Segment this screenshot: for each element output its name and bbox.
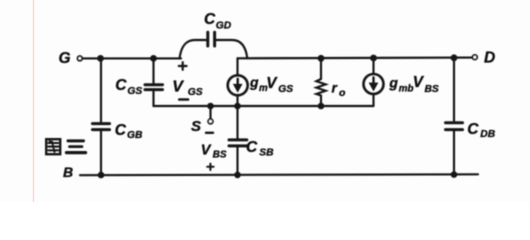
wire top rail right (D node) — [238, 57, 473, 60]
label S — [191, 118, 201, 135]
svg-text:mb: mb — [399, 84, 414, 95]
capacitor CGB — [93, 124, 110, 130]
wire B rail — [80, 173, 478, 176]
junction node B-CDB — [451, 171, 458, 178]
terminal S — [208, 119, 213, 124]
svg-text:o: o — [339, 87, 346, 99]
label D — [484, 50, 495, 67]
current source U2 gmbVBS — [364, 74, 384, 94]
scan artifact pink line — [33, 0, 35, 202]
wire S terminal stub — [209, 106, 211, 119]
svg-text:C: C — [246, 139, 258, 156]
svg-text:r: r — [332, 80, 339, 96]
wire rO branch bottom — [320, 96, 322, 107]
label CSB — [246, 139, 274, 159]
plus sign VGS — [179, 62, 187, 70]
junction node S-CSB — [234, 103, 241, 110]
label G — [59, 50, 71, 67]
svg-text:g: g — [249, 74, 259, 90]
junction node D-CDB — [451, 54, 458, 61]
junction node B-CSB — [234, 172, 241, 179]
svg-text:C: C — [467, 121, 479, 138]
svg-text:V: V — [266, 75, 278, 92]
svg-text:GB: GB — [127, 130, 143, 141]
wire CDB bottom — [453, 131, 455, 175]
figure label 圖三 — [46, 139, 85, 154]
label CGD — [204, 11, 232, 32]
wire CGD hump — [180, 40, 248, 58]
terminal D — [473, 55, 478, 60]
wire gm source branch top — [236, 58, 238, 75]
wire gmb source branch top — [372, 58, 374, 74]
label gmVGS — [249, 74, 293, 95]
label VGS — [172, 79, 203, 98]
svg-text:C: C — [115, 122, 127, 139]
terminal G — [78, 56, 83, 61]
junction node S-rO — [318, 103, 325, 110]
wire S rail — [154, 105, 374, 107]
svg-text:D: D — [484, 50, 495, 67]
junction node G-CGB — [97, 55, 104, 62]
capacitor CDB — [446, 123, 463, 130]
resistor rO — [316, 79, 325, 96]
junction node B-CGB — [98, 172, 105, 179]
wire CSB bottom — [236, 147, 238, 175]
capacitor CGS — [145, 85, 163, 90]
wire gmb source branch bottom — [372, 95, 374, 107]
svg-text:C: C — [115, 77, 127, 94]
svg-text:GS: GS — [127, 86, 142, 97]
capacitor CGD — [208, 32, 215, 46]
minus sign VGS — [179, 98, 188, 101]
label rO — [332, 80, 347, 99]
label CDB — [467, 121, 495, 140]
wire rO branch top — [320, 58, 322, 79]
wire gm source branch bottom to CSB — [236, 95, 238, 138]
svg-text:GD: GD — [216, 21, 232, 32]
wire CDB branch top — [453, 58, 455, 121]
label CGB — [115, 122, 143, 141]
svg-text:V: V — [413, 74, 425, 91]
svg-text:BS: BS — [213, 149, 227, 160]
svg-text:g: g — [388, 75, 398, 91]
svg-text:G: G — [59, 50, 71, 67]
capacitor CSB — [229, 140, 247, 146]
junction node D-rO — [318, 55, 325, 62]
current source U1 gmVGS — [228, 75, 248, 95]
label VBS — [201, 142, 227, 160]
junction node G-CGS — [150, 55, 157, 62]
wire CGB branch — [100, 58, 102, 175]
svg-text:GS: GS — [278, 84, 293, 95]
plus sign VBS — [207, 164, 213, 170]
minus sign VBS — [206, 132, 213, 134]
svg-text:S: S — [191, 118, 201, 135]
svg-text:V: V — [201, 142, 212, 158]
label B — [63, 164, 73, 180]
junction node S-stub — [207, 103, 214, 110]
wire CGS branch — [152, 58, 154, 106]
svg-text:C: C — [204, 11, 216, 28]
svg-text:GS: GS — [188, 87, 203, 98]
svg-text:B: B — [63, 164, 73, 180]
label gmbVBS — [388, 74, 439, 95]
svg-text:SB: SB — [259, 148, 274, 159]
junction node D-gmb — [370, 55, 377, 62]
svg-text:BS: BS — [425, 84, 439, 95]
svg-text:DB: DB — [480, 129, 495, 140]
wire top rail left (G node) — [83, 57, 182, 59]
label CGS — [115, 77, 142, 97]
svg-text:V: V — [172, 79, 184, 96]
